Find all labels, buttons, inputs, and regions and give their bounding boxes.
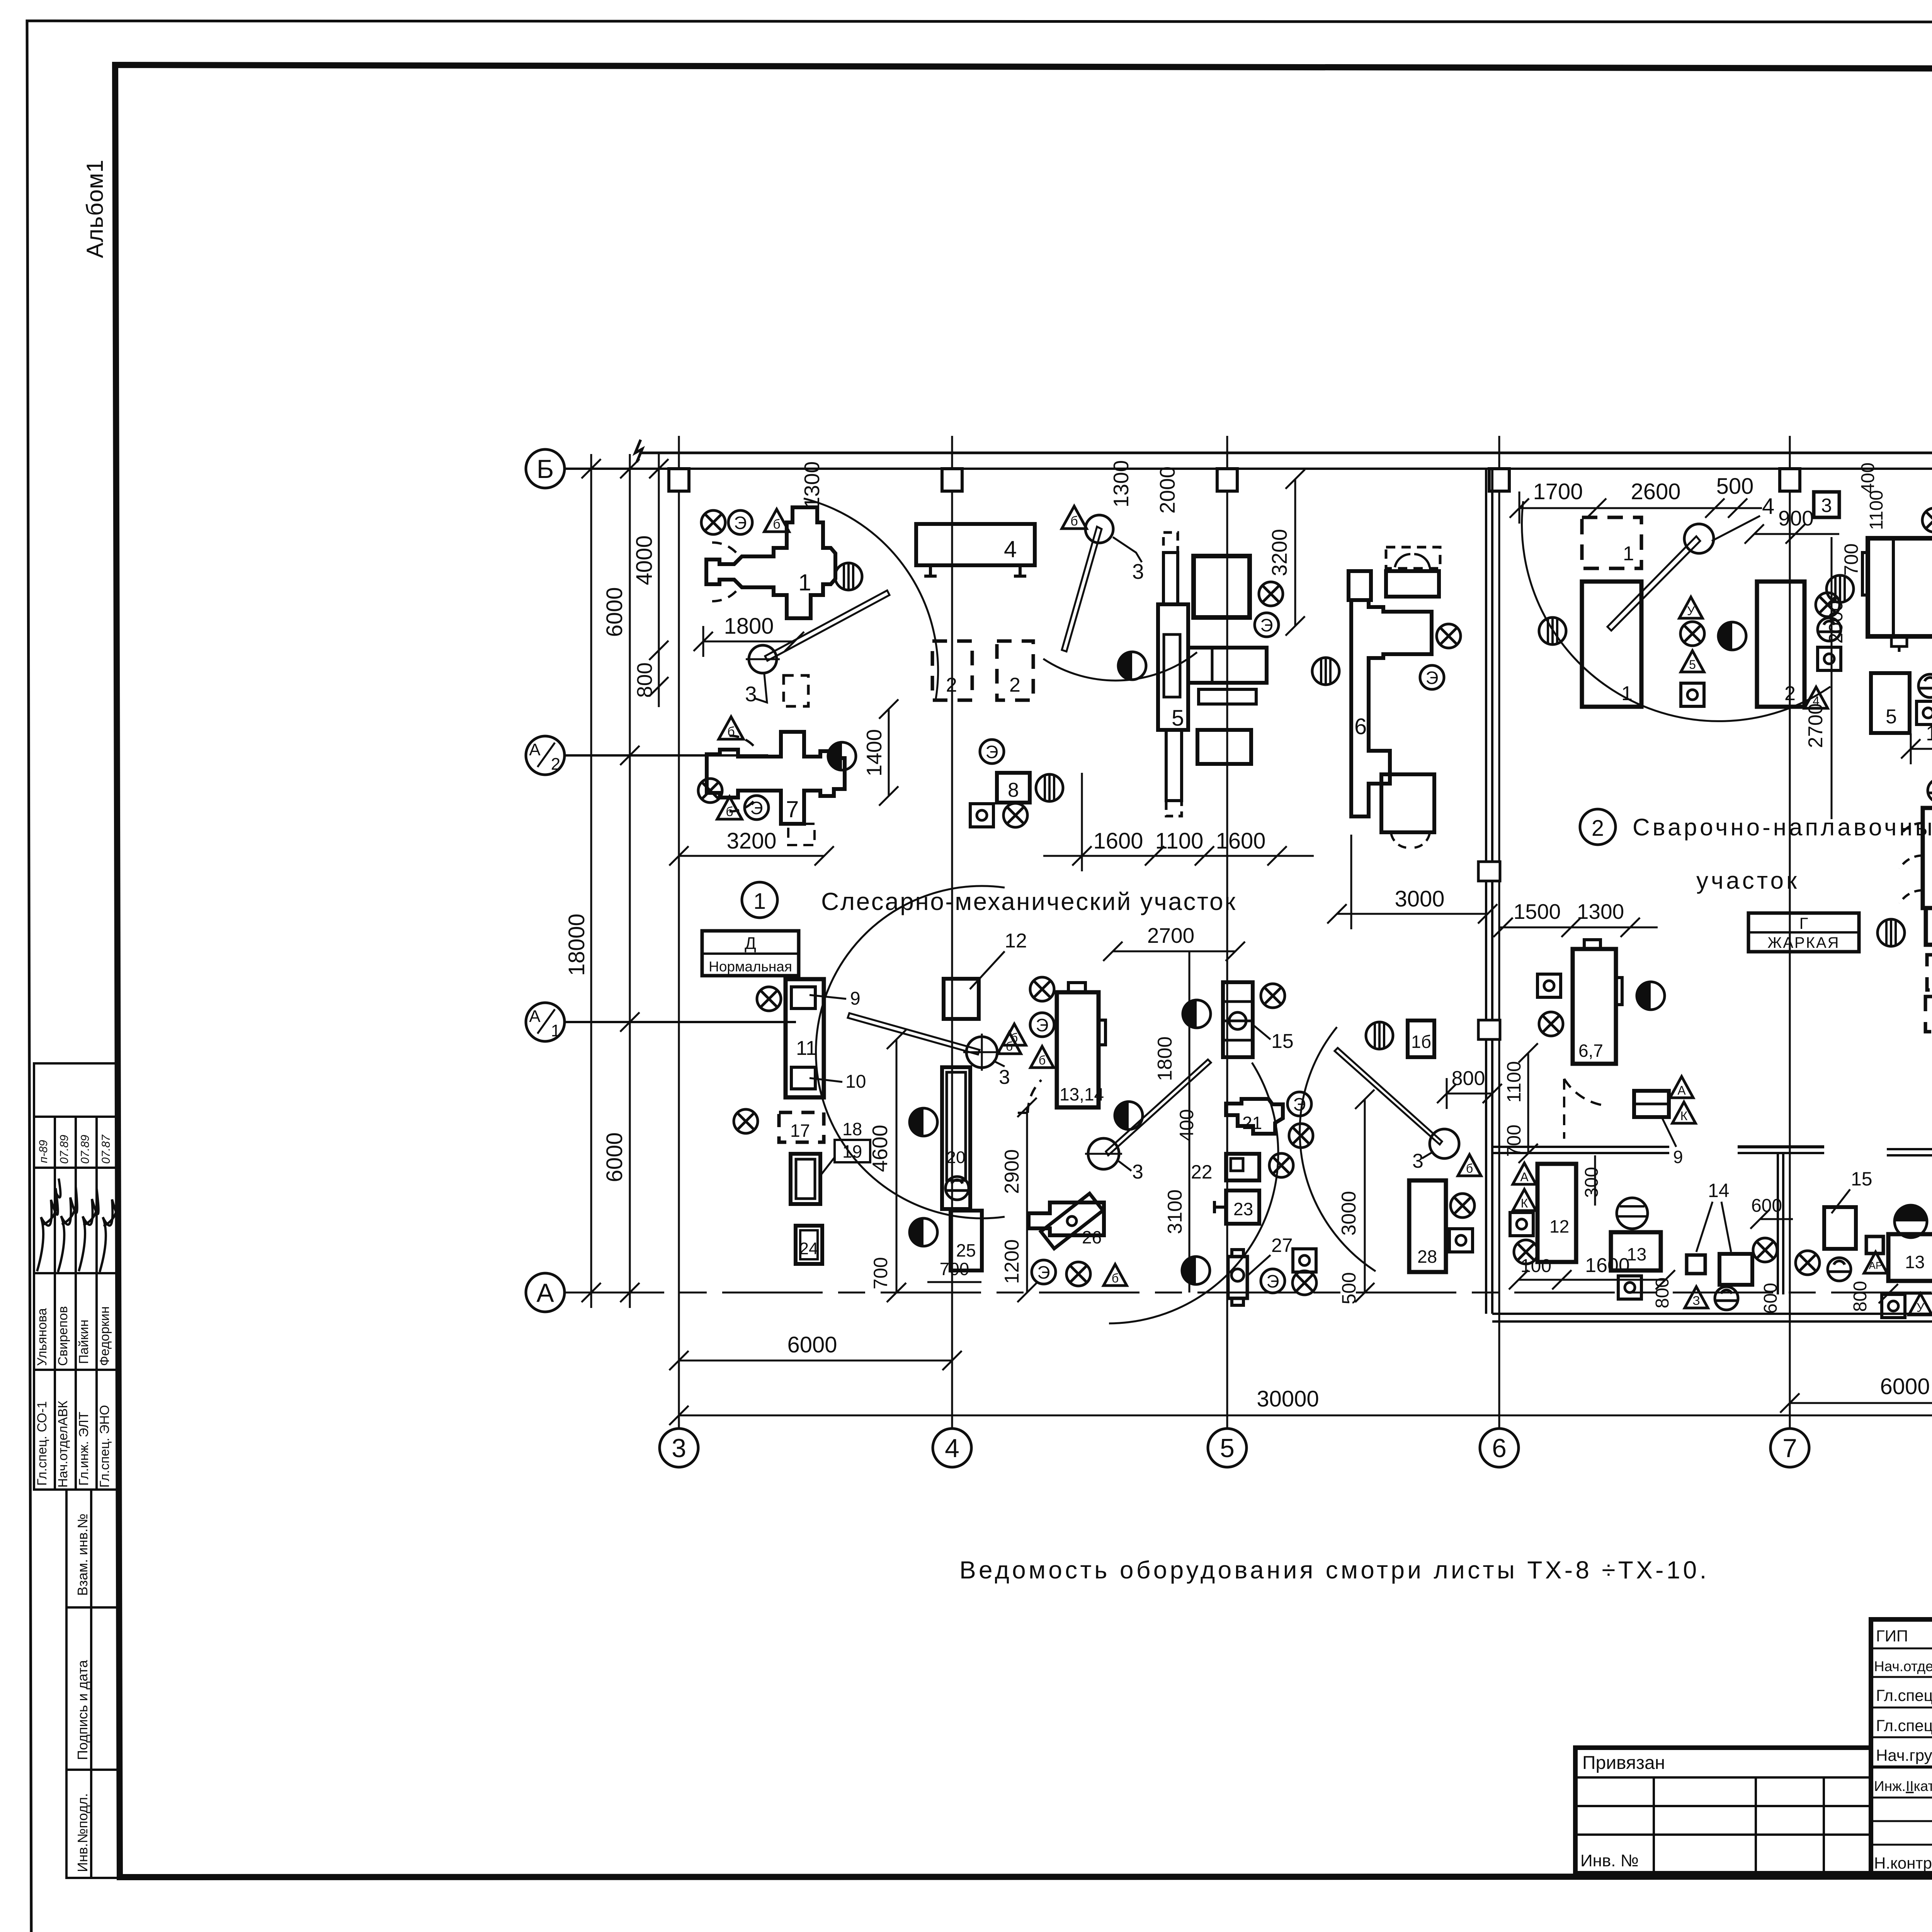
svg-text:2000: 2000 [1155, 466, 1179, 514]
title block signature table [1871, 1619, 1932, 1873]
crane 4 arc [816, 886, 1005, 1218]
machine 12 left [944, 930, 1027, 1019]
machine 14 room [1719, 1254, 1752, 1285]
svg-text:1100: 1100 [1155, 828, 1204, 854]
svg-text:2700: 2700 [1804, 703, 1827, 748]
lamp x18 [1451, 1194, 1475, 1218]
svg-text:800: 800 [1452, 1067, 1485, 1090]
svg-text:2600: 2600 [1631, 479, 1680, 504]
half circle 5 [1115, 1102, 1143, 1129]
dashed 17 left [779, 1112, 824, 1142]
svg-text:30000: 30000 [1257, 1386, 1319, 1412]
svg-text:3: 3 [672, 1434, 686, 1463]
partition column marks [1478, 862, 1500, 1039]
svg-text:2: 2 [946, 674, 957, 696]
half circle 1 [828, 742, 856, 770]
center partition wall [1486, 470, 1492, 1314]
svg-text:1б: 1б [1411, 1032, 1431, 1052]
machine 16 left [1408, 1020, 1434, 1057]
machine 8 [997, 773, 1030, 803]
lamp x5 [1437, 624, 1461, 648]
svg-text:700: 700 [1840, 543, 1862, 575]
svg-text:11: 11 [796, 1037, 817, 1060]
axis circle 5 [1208, 1429, 1247, 1467]
svg-text:20: 20 [947, 1148, 966, 1167]
machine 22 [1226, 1154, 1259, 1180]
triangle А r2 [1513, 1163, 1536, 1184]
dim 800 mid [1437, 1078, 1502, 1109]
crane 2 jib [1062, 527, 1102, 651]
half circle r1 [1637, 982, 1665, 1010]
label 10 leader [810, 1071, 866, 1092]
ominus 2 [1918, 674, 1932, 697]
vent circle 2 [1036, 774, 1063, 801]
svg-text:14: 14 [1708, 1180, 1730, 1201]
label 3 crane6 [1412, 1150, 1434, 1172]
vent circle 4 [1539, 617, 1566, 645]
vent circle 1 [835, 563, 862, 590]
svg-text:1100: 1100 [1866, 490, 1887, 530]
machine 25 [951, 1211, 982, 1270]
svg-text:Подпись и дата: Подпись и дата [75, 1660, 90, 1760]
dim 3100 vertical mid [1164, 951, 1189, 1293]
boxed 3 [1814, 492, 1839, 517]
svg-text:07.89: 07.89 [58, 1135, 71, 1164]
triangle У weld [1679, 597, 1702, 618]
machine 21 [1226, 1099, 1283, 1134]
dim 3000 left hall [1327, 835, 1497, 929]
margin signature table [34, 1063, 117, 1490]
svg-text:б: б [773, 517, 780, 532]
svg-text:Гл.инж. ЭЛТ: Гл.инж. ЭЛТ [77, 1412, 91, 1486]
axis circle 6 [1480, 1429, 1519, 1467]
left dim chain 6000s [620, 454, 639, 1308]
svg-text:Ульянова: Ульянова [35, 1308, 49, 1366]
machine 11 [786, 979, 824, 1097]
svg-text:4: 4 [945, 1434, 959, 1463]
svg-text:А: А [1677, 1083, 1686, 1097]
svg-text:1700: 1700 [1533, 479, 1583, 504]
svg-text:З: З [1692, 1294, 1700, 1308]
triangle б1 [764, 509, 789, 532]
machine 5 weld [1871, 673, 1910, 733]
svg-text:19: 19 [842, 1141, 862, 1162]
square-circle 27 [1293, 1249, 1316, 1272]
svg-text:1400: 1400 [862, 729, 886, 776]
lamp x19 [1539, 1012, 1563, 1036]
vertical axis lines 3..8 [679, 436, 1932, 1429]
axis circle 3 [660, 1429, 698, 1467]
svg-text:6: 6 [1354, 714, 1367, 739]
svg-text:Взам. инв.№: Взам. инв.№ [75, 1514, 90, 1596]
machine 3 weld [1862, 538, 1932, 652]
svg-text:8: 8 [1008, 779, 1019, 801]
symbol Э5 [1420, 665, 1444, 689]
svg-text:1: 1 [753, 889, 766, 914]
svg-text:А: А [529, 1007, 541, 1026]
square-circle 1 [970, 804, 993, 827]
lamp x10 [757, 987, 781, 1011]
svg-text:23: 23 [1233, 1199, 1253, 1219]
svg-text:3: 3 [745, 682, 757, 706]
axis circle 7 [1770, 1429, 1809, 1467]
dim 700 small [927, 1259, 981, 1282]
svg-text:2700: 2700 [1147, 923, 1194, 947]
vent circle 3 [1312, 658, 1339, 685]
crane 1 jib [765, 590, 889, 661]
machine 6 7 room [1573, 940, 1622, 1064]
machine 7 dashed door [730, 736, 753, 811]
dim 300 vertical room [1582, 1155, 1602, 1206]
dim 3200 [669, 846, 834, 866]
svg-text:К: К [1680, 1109, 1688, 1123]
svg-text:6000: 6000 [602, 587, 627, 637]
triangle З room [1685, 1287, 1708, 1308]
dim 3200 vertical [1267, 469, 1305, 636]
svg-text:24: 24 [799, 1239, 818, 1258]
svg-text:2900: 2900 [1001, 1149, 1023, 1194]
svg-text:участок: участок [1696, 867, 1799, 894]
triangle АР room [1864, 1252, 1887, 1273]
svg-text:13: 13 [1905, 1252, 1925, 1272]
machine 15 left [1223, 982, 1253, 1057]
svg-text:3: 3 [1132, 1161, 1143, 1183]
lamp x21 [1753, 1238, 1777, 1262]
label 3 crane2 [1113, 537, 1144, 583]
half circle 3 [910, 1108, 937, 1136]
lamp x16 [1269, 1153, 1293, 1177]
machine 23 [1214, 1190, 1259, 1224]
svg-text:Гл.спец.: Гл.спец. [1876, 1716, 1932, 1735]
dim 1700 weld [1901, 733, 1932, 764]
machine 8 weld [1900, 808, 1932, 945]
svg-text:1700: 1700 [1926, 721, 1932, 745]
symbol Э9 [1261, 1269, 1285, 1293]
lamp x22 [1796, 1251, 1820, 1275]
svg-text:800: 800 [1850, 1281, 1871, 1312]
machine 9 room [1634, 1091, 1669, 1117]
svg-text:800: 800 [1652, 1277, 1673, 1308]
привязан block [1575, 1748, 1871, 1873]
bottom dim 6000 right [1780, 1393, 1932, 1413]
dim 1800 [694, 626, 804, 657]
svg-text:Инв.№подл.: Инв.№подл. [75, 1793, 90, 1872]
svg-text:Нач.груп.: Нач.груп. [1876, 1746, 1932, 1764]
triangle 4 weld [1804, 687, 1828, 708]
svg-text:300: 300 [1582, 1167, 1602, 1198]
svg-text:Б: Б [537, 454, 554, 484]
half circle 6 [1183, 1000, 1211, 1028]
svg-text:Свирепов: Свирепов [56, 1306, 70, 1366]
bench 4 [916, 524, 1035, 576]
svg-text:3: 3 [1412, 1150, 1423, 1172]
triangle А r1 [1670, 1077, 1693, 1098]
svg-text:12: 12 [1005, 930, 1027, 952]
svg-text:700: 700 [1503, 1124, 1525, 1156]
svg-text:400: 400 [1858, 463, 1878, 493]
margin dates [37, 1134, 112, 1164]
svg-text:07.87: 07.87 [100, 1134, 112, 1164]
svg-text:6,7: 6,7 [1578, 1041, 1603, 1061]
weld dims 1700 2600 500 [1510, 492, 1762, 524]
symbol Э6 [1030, 1013, 1054, 1037]
svg-text:3200: 3200 [1267, 529, 1291, 576]
axis line А/1 [564, 1021, 796, 1023]
svg-text:5: 5 [1172, 706, 1184, 731]
crane 3 pivot [1684, 524, 1714, 553]
svg-text:АР: АР [1869, 1260, 1883, 1271]
vent circle 6 [1878, 919, 1905, 946]
svg-text:3: 3 [999, 1066, 1010, 1088]
svg-text:1: 1 [1623, 543, 1634, 565]
hot zone box [1748, 913, 1859, 952]
small square 14a [1687, 1255, 1705, 1274]
square-circle r3 [1618, 1276, 1641, 1299]
lamp x17 [1293, 1271, 1316, 1295]
svg-text:15: 15 [1271, 1030, 1294, 1053]
half circle 2 [1118, 652, 1146, 680]
margin signatures [37, 1179, 119, 1272]
triangle б7 [1031, 1046, 1054, 1068]
svg-text:700: 700 [940, 1259, 969, 1279]
svg-text:10: 10 [845, 1071, 866, 1092]
svg-text:Нормальная: Нормальная [709, 959, 792, 975]
svg-text:21: 21 [1242, 1113, 1262, 1133]
lamp x13 [1066, 1262, 1090, 1286]
svg-text:13,14: 13,14 [1060, 1084, 1104, 1104]
crane 6 arc [1300, 1027, 1376, 1271]
svg-text:б: б [726, 804, 733, 819]
svg-text:б: б [1039, 1053, 1046, 1067]
label 3 crane4 [993, 1061, 1010, 1088]
section label 1 [742, 882, 777, 918]
svg-text:К: К [1521, 1196, 1528, 1210]
svg-text:4000: 4000 [632, 535, 657, 585]
svg-text:А: А [536, 1278, 554, 1308]
dim 1400 vertical [862, 699, 898, 806]
vent circle 5 [1827, 575, 1854, 602]
svg-text:б: б [1466, 1162, 1473, 1175]
svg-text:4: 4 [1004, 536, 1017, 562]
dim 2700 top [1103, 942, 1245, 961]
svg-text:3: 3 [1821, 495, 1832, 516]
crane 2 pivot [1085, 515, 1113, 543]
vent circle 7 [1366, 1022, 1393, 1049]
svg-text:Нач.отдела: Нач.отдела [1874, 1658, 1932, 1674]
lamp x12 [1030, 977, 1054, 1001]
lamp x20 [1514, 1240, 1538, 1264]
svg-text:28: 28 [1417, 1247, 1437, 1267]
svg-text:Гл.спец. ЭНО: Гл.спец. ЭНО [97, 1405, 112, 1488]
svg-text:1500: 1500 [1514, 900, 1561, 923]
triangle 5 weld [1681, 651, 1704, 672]
half circle 7 [1182, 1257, 1210, 1284]
svg-text:4: 4 [1762, 494, 1774, 519]
label 9 room [1662, 1117, 1683, 1167]
svg-text:5: 5 [1220, 1434, 1235, 1463]
margin names [35, 1306, 112, 1366]
label 4 crane [1712, 494, 1774, 541]
svg-text:2: 2 [1784, 682, 1796, 705]
margin cell labels [75, 1514, 90, 1872]
crane 5 jib [1106, 1060, 1211, 1155]
square-circle weld1 [1681, 683, 1704, 706]
svg-text:1600: 1600 [1585, 1254, 1630, 1277]
svg-text:7: 7 [1782, 1434, 1797, 1463]
crane 2 arc [1043, 652, 1197, 680]
symbol Э2 [745, 796, 769, 820]
svg-text:п-89: п-89 [37, 1140, 50, 1163]
machine 28 [1409, 1180, 1446, 1272]
svg-text:3100: 3100 [1164, 1189, 1186, 1234]
crane 3 arc [1522, 501, 1830, 721]
triangle б2 [719, 717, 743, 739]
lamp x2 [698, 779, 722, 803]
svg-text:800: 800 [633, 662, 656, 698]
dashed door 13 14 [1017, 1080, 1041, 1113]
machine 5 boring mill [1158, 532, 1267, 816]
svg-text:2: 2 [1592, 816, 1604, 841]
semiblack circle room [1895, 1205, 1927, 1238]
triangle б3 [717, 797, 742, 819]
svg-text:1: 1 [551, 1021, 560, 1040]
svg-text:Ведомость оборудования смо: Ведомость оборудования смотри листы ТХ-8… [959, 1556, 1709, 1584]
svg-text:700: 700 [870, 1257, 891, 1289]
svg-text:7: 7 [786, 796, 799, 822]
svg-text:Д: Д [745, 934, 756, 953]
symbol Э8 [1287, 1092, 1311, 1116]
svg-text:2: 2 [1009, 674, 1020, 696]
dim 4600 vertical [868, 1030, 906, 1302]
lamp x15 [1289, 1124, 1313, 1148]
machine 12 room [1537, 1164, 1576, 1262]
ominus r2 [1715, 1287, 1738, 1310]
half circle 4 [910, 1218, 937, 1246]
svg-text:У: У [1917, 1301, 1925, 1315]
south wall right rooms [1492, 1314, 1932, 1321]
crane 1 reach arc [804, 498, 938, 699]
crane 5 arc [1109, 1063, 1278, 1323]
svg-text:ЖАРКАЯ: ЖАРКАЯ [1767, 934, 1840, 951]
dashed 17 box a [1927, 955, 1932, 990]
svg-text:12: 12 [1549, 1216, 1569, 1236]
machine 6 [1349, 547, 1440, 848]
dim 3000 vertical mid [1338, 1090, 1374, 1302]
triangle б4 [1062, 506, 1087, 529]
square-circle r1 [1537, 974, 1561, 997]
normal zone box [702, 931, 799, 976]
label 3 crane1 [745, 674, 767, 706]
lamp symbol x1 [701, 510, 725, 534]
machine 7 dashed base [788, 824, 815, 845]
interior T wall [1738, 1147, 1824, 1294]
square-circle 28 [1449, 1229, 1473, 1252]
dashed squares 2 [932, 641, 1033, 700]
svg-text:100: 100 [1520, 1256, 1551, 1276]
triangle б5 [1003, 1024, 1026, 1045]
svg-text:Слесарно-механический участок: Слесарно-механический участок [821, 888, 1237, 915]
svg-text:5: 5 [1689, 658, 1696, 672]
ominus 4 [946, 1177, 969, 1200]
dim 1600 1100 1600 [1043, 773, 1314, 871]
svg-text:6000: 6000 [602, 1132, 627, 1182]
svg-text:Сварочно-наплавочный: Сварочно-наплавочный [1633, 814, 1932, 841]
label 27 leader [1248, 1235, 1293, 1275]
svg-text:4600: 4600 [868, 1125, 892, 1172]
svg-text:600: 600 [1760, 1283, 1781, 1314]
machine 7 cross planer [707, 732, 845, 824]
dim 100 1600 room [1509, 1270, 1675, 1289]
crane 4 pivot [963, 1034, 1000, 1071]
svg-text:Нач.отделАВК: Нач.отделАВК [56, 1401, 70, 1488]
svg-text:500: 500 [1338, 1272, 1360, 1304]
machine 1 dashed door [712, 543, 736, 601]
bottom dim 30000 [669, 1406, 1932, 1425]
svg-text:Инв. №: Инв. № [1580, 1851, 1639, 1870]
signature table texts [1874, 1627, 1932, 1873]
svg-text:1: 1 [798, 570, 811, 595]
svg-text:18000: 18000 [564, 913, 589, 976]
svg-text:2: 2 [551, 755, 560, 774]
svg-text:1300: 1300 [1577, 900, 1624, 923]
square-circle weld4 [1917, 701, 1932, 724]
svg-text:3000: 3000 [1338, 1191, 1360, 1236]
svg-text:б: б [1112, 1271, 1119, 1285]
svg-text:Федоркин: Федоркин [97, 1306, 112, 1366]
interior wall right [1887, 1149, 1932, 1155]
lamp x3 [1003, 803, 1027, 827]
interior wall room upper right [1492, 1147, 1669, 1153]
triangle б9 [1458, 1155, 1481, 1176]
dim 600 room [1750, 1209, 1793, 1229]
dim 1500 1300 [1493, 918, 1658, 937]
axis line А [564, 1292, 1932, 1294]
dashed square 1 weld [1582, 517, 1641, 568]
crane 4 jib [848, 1013, 980, 1054]
dim 1100 room vertical [1503, 1043, 1538, 1163]
dim 2900 vertical [1001, 1098, 1037, 1302]
machine 20 [942, 1067, 970, 1209]
svg-text:400: 400 [1176, 1109, 1197, 1141]
svg-text:500: 500 [1716, 474, 1754, 499]
square-circle r4 [1882, 1294, 1905, 1318]
lamp x11 [734, 1109, 758, 1133]
margin job titles [35, 1401, 112, 1488]
machine 2 weld [1757, 582, 1804, 707]
section label 2 [1580, 809, 1616, 845]
axis line Б [564, 468, 1932, 470]
crane 1 pivot [746, 642, 780, 676]
crane 6 pivot [1430, 1129, 1459, 1158]
square-circle r2 [1510, 1213, 1533, 1236]
svg-text:Пайкин: Пайкин [77, 1320, 91, 1364]
svg-text:1200: 1200 [1001, 1239, 1023, 1284]
crane rail line [635, 440, 1932, 462]
triangle К r2 [1513, 1189, 1536, 1211]
square-circle weld2 [1818, 647, 1841, 670]
label 15 room [1832, 1168, 1872, 1213]
ominus 3 [1928, 779, 1932, 802]
ominus r1 [1617, 1198, 1648, 1229]
lamp x8 [1922, 508, 1932, 532]
svg-text:6000: 6000 [787, 1332, 837, 1357]
svg-text:17: 17 [790, 1121, 810, 1141]
svg-text:Г: Г [1799, 914, 1808, 932]
small square 15a [1866, 1236, 1883, 1253]
svg-text:600: 600 [1751, 1196, 1782, 1216]
svg-text:Инж.IIкат: Инж.IIкат [1874, 1778, 1932, 1794]
svg-text:25: 25 [956, 1240, 976, 1260]
